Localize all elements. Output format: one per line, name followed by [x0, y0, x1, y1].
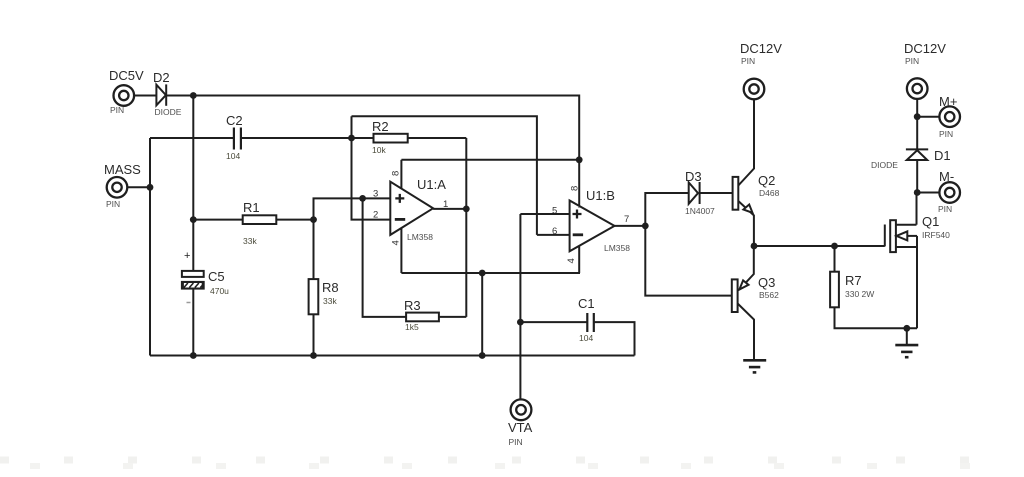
transistor Q3: [732, 246, 779, 360]
wire R2-left node vertical to pin 2: [352, 116, 391, 219]
ground rail (MASS net): [150, 355, 635, 357]
svg-text:Q1: Q1: [922, 214, 939, 229]
wire M+ node to pin: [917, 116, 939, 118]
wire C5 bottom to ground rail: [192, 289, 194, 356]
svg-text:D1: D1: [934, 148, 951, 163]
wire M- node to pin: [917, 192, 939, 194]
node: junction dot C5 at rail: [190, 352, 197, 359]
wire C2 left segment: [150, 137, 234, 139]
pin DC5V: [109, 68, 144, 115]
svg-text:4: 4: [391, 240, 402, 245]
wire output node up to D3: [645, 193, 688, 226]
pin M+: [939, 94, 960, 139]
svg-text:4: 4: [566, 258, 577, 263]
resistor R8: [309, 220, 339, 356]
svg-text:33k: 33k: [243, 236, 257, 246]
svg-text:M-: M-: [939, 169, 954, 184]
op-amp U1:A: [373, 160, 448, 273]
pin DC12V (driver): [740, 41, 782, 99]
svg-text:+: +: [184, 250, 190, 262]
capacitor C2: [226, 113, 243, 161]
svg-text:D2: D2: [153, 70, 170, 85]
resistor R7: [830, 246, 917, 328]
svg-text:M+: M+: [939, 94, 957, 109]
svg-text:3: 3: [373, 189, 378, 200]
node: junction dot at D2 output: [190, 92, 197, 99]
svg-text:R7: R7: [845, 273, 862, 288]
svg-text:VTA: VTA: [508, 420, 533, 435]
wire V- rail (pin 4): [401, 272, 580, 274]
wire D2 to top rail corner: [166, 96, 579, 161]
wire pin4 rail down to ground rail: [481, 273, 483, 356]
svg-text:MASS: MASS: [104, 162, 141, 177]
wire C2 right to R2 node: [241, 137, 352, 139]
node: junction dot R8 at rail: [310, 352, 317, 359]
pin DC12V (power): [904, 41, 946, 99]
wire V+ rail (pin 8): [401, 159, 579, 161]
node: junction dot R2 left: [348, 135, 355, 142]
node: junction dot R7 top: [831, 243, 838, 250]
svg-text:8: 8: [391, 171, 402, 176]
wire emitters to gate: [754, 245, 885, 247]
node: junction dot pin4-rail at ground rail: [479, 352, 486, 359]
svg-text:PIN: PIN: [741, 56, 755, 66]
svg-text:33k: 33k: [323, 296, 337, 306]
svg-text:7: 7: [624, 214, 629, 225]
svg-text:C2: C2: [226, 113, 243, 128]
diode D3: [685, 169, 715, 216]
pin M-: [938, 169, 960, 214]
node: junction dot MASS: [147, 184, 154, 191]
wire D3 to Q2 base: [700, 192, 733, 194]
wire ground stub: [906, 328, 908, 345]
svg-text:PIN: PIN: [110, 105, 124, 115]
wire output node down to Q3 base: [645, 226, 732, 296]
node: junction dot U1:A output: [463, 206, 470, 213]
node: junction dot pin4 rail: [479, 270, 486, 277]
wire R1 node up to pin 3: [314, 198, 391, 219]
svg-text:LM358: LM358: [604, 243, 630, 253]
node: junction dot R1 right: [310, 216, 317, 223]
wire pin 5: [520, 213, 569, 215]
wire vertical from D2 node down to C5 top: [192, 96, 194, 271]
svg-text:PIN: PIN: [509, 437, 523, 447]
wire feedback top loop to pin 6: [352, 116, 537, 235]
op-amp U1:B: [552, 186, 630, 273]
wire left rail vertical: [149, 138, 151, 356]
svg-text:D3: D3: [685, 169, 702, 184]
node: junction dot U1:B output: [642, 223, 649, 230]
wire U1:B output: [615, 225, 646, 227]
svg-text:2: 2: [373, 210, 378, 221]
node: junction dot R1 left: [190, 216, 197, 223]
svg-text:R1: R1: [243, 200, 260, 215]
svg-text:DIODE: DIODE: [871, 160, 898, 170]
wire M+ down to D1: [916, 117, 918, 150]
svg-text:104: 104: [226, 151, 240, 161]
wire R2 right down to op-amp output: [465, 138, 467, 209]
svg-text:PIN: PIN: [106, 199, 120, 209]
node: junction dot top rail / pin8: [576, 156, 583, 163]
node: junction dot Q2/Q3 emitters: [751, 243, 758, 250]
pin MASS: [104, 162, 141, 209]
diode D2: [153, 70, 182, 117]
svg-text:104: 104: [579, 333, 593, 343]
svg-text:D468: D468: [759, 188, 780, 198]
node: junction dot M+: [914, 113, 921, 120]
svg-text:1N4007: 1N4007: [685, 206, 715, 216]
wire DC12V down to M+: [916, 99, 918, 117]
svg-text:U1:A: U1:A: [417, 177, 446, 192]
resistor R1: [193, 200, 313, 246]
wire MASS to left rail: [127, 186, 150, 188]
capacitor C1: [520, 296, 634, 356]
ground (below Q3): [743, 360, 766, 372]
svg-text:PIN: PIN: [905, 56, 919, 66]
svg-text:Q2: Q2: [758, 173, 775, 188]
capacitor C5 (electrolytic): [182, 250, 229, 303]
node: junction dot M-: [914, 189, 921, 196]
transistor Q2: [733, 100, 780, 246]
svg-text:B562: B562: [759, 290, 779, 300]
svg-text:Q3: Q3: [758, 275, 775, 290]
svg-text:330 2W: 330 2W: [845, 289, 874, 299]
svg-text:R3: R3: [404, 298, 421, 313]
wire pin 6 stub: [537, 234, 570, 236]
svg-text:R8: R8: [322, 280, 339, 295]
node: junction dot C1 left: [517, 319, 524, 326]
node: junction dot pin3 branch: [359, 195, 366, 202]
svg-text:LM358: LM358: [407, 232, 433, 242]
svg-text:U1:B: U1:B: [586, 188, 615, 203]
diode D1: [871, 148, 951, 170]
svg-text:R2: R2: [372, 119, 389, 134]
resistor R2: [352, 119, 467, 155]
svg-text:IRF540: IRF540: [922, 230, 950, 240]
svg-text:10k: 10k: [372, 145, 386, 155]
wire pin3 node down to R3 left: [363, 198, 407, 317]
wire pin8 U1:B down: [578, 160, 580, 208]
wire VTA vertical: [519, 214, 521, 399]
svg-text:DC5V: DC5V: [109, 68, 144, 83]
svg-text:PIN: PIN: [939, 129, 953, 139]
svg-text:470u: 470u: [210, 286, 229, 296]
wire output down to R3 right: [465, 209, 467, 317]
wire DC5V to D2: [134, 95, 156, 97]
svg-text:DC12V: DC12V: [740, 41, 782, 56]
mosfet Q1: [885, 214, 950, 252]
wire source down: [916, 236, 918, 328]
node: junction dot ground stub: [903, 325, 910, 332]
torn edge marks: [0, 460, 1024, 466]
svg-text:DIODE: DIODE: [155, 107, 182, 117]
svg-text:PIN: PIN: [938, 204, 952, 214]
wire drain up to M- node: [916, 193, 918, 225]
svg-text:C1: C1: [578, 296, 595, 311]
svg-text:8: 8: [570, 186, 581, 191]
wire D1 to M- node: [916, 160, 918, 193]
wire U1:A output: [433, 208, 466, 210]
ground (below Q1 source): [895, 345, 918, 357]
svg-text:1k5: 1k5: [405, 322, 419, 332]
svg-text:C5: C5: [208, 269, 225, 284]
svg-text:DC12V: DC12V: [904, 41, 946, 56]
pin VTA: [508, 399, 533, 447]
resistor R3: [404, 298, 466, 332]
